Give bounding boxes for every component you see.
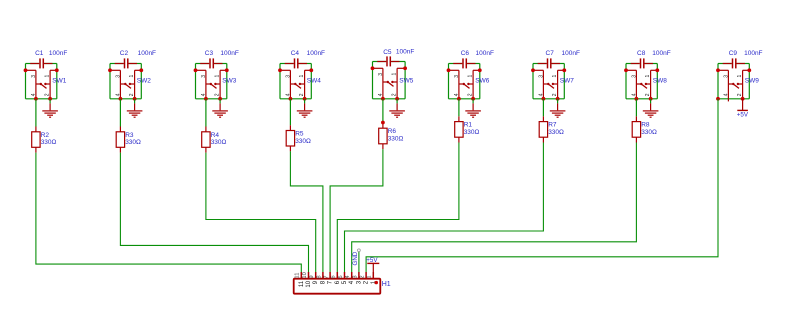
svg-text:10: 10 (302, 272, 308, 278)
svg-text:3: 3 (538, 75, 544, 78)
svg-text:4: 4 (454, 93, 460, 96)
capacitor C6 100nF (453, 50, 494, 68)
resistor R3 330&#937; (116, 127, 141, 153)
capacitor C7 100nF (538, 50, 580, 68)
svg-text:10: 10 (306, 280, 312, 287)
wire: left vertical of SW6 loop (448, 64, 450, 99)
svg-text:C9: C9 (729, 50, 738, 57)
wire: top edge of SW9 loop (interrupted by cap) (718, 63, 732, 65)
svg-text:+5V: +5V (737, 111, 749, 118)
svg-text:C3: C3 (205, 50, 214, 57)
wire: right vertical of SW9 loop (748, 64, 750, 99)
wire: left vertical of SW2 loop (109, 64, 111, 99)
wire: right vertical of SW2 loop (140, 64, 142, 99)
svg-text:3: 3 (285, 75, 291, 78)
svg-text:4: 4 (378, 93, 384, 96)
svg-text:C1: C1 (35, 50, 44, 57)
switch SW9 actuator lever (733, 84, 739, 88)
svg-text:100nF: 100nF (744, 50, 762, 57)
svg-text:C4: C4 (291, 50, 300, 57)
junction at SW9 pin 2 / bottom wire (741, 97, 745, 101)
resistor R6 330&#937; (379, 123, 404, 149)
svg-text:2: 2 (552, 93, 558, 96)
svg-text:4: 4 (723, 93, 729, 96)
wire: bottom edge of SW1 loop (26, 98, 57, 100)
header H1 pin 11 stub (300, 272, 302, 279)
wire from R7 to header pin 5 (345, 143, 544, 273)
junction dot above resistor R6 (381, 121, 385, 125)
junction at SW4 pin 4 / bottom wire (289, 97, 293, 101)
header H1 pin 9 stub (315, 272, 317, 279)
svg-text:SW2: SW2 (137, 78, 151, 85)
capacitor C9 100nF (723, 50, 763, 68)
svg-text:1: 1 (552, 75, 558, 78)
svg-text:1: 1 (391, 73, 397, 76)
svg-text:8: 8 (316, 275, 322, 278)
svg-text:2: 2 (299, 93, 305, 96)
switch SW3 actuator lever (211, 84, 217, 88)
svg-text:3: 3 (378, 73, 384, 76)
svg-text:1: 1 (645, 75, 651, 78)
svg-text:11: 11 (295, 273, 301, 279)
capacitor C5 100nF (377, 49, 414, 67)
junction at SW6 pin 4 / bottom wire (457, 97, 461, 101)
wire from R1 to header pin 6 (337, 143, 459, 273)
junction dots on SW6 loop (447, 68, 451, 72)
wire: top edge of SW1 loop (interrupted by cap) (26, 63, 40, 65)
switch SW8 (pins 3,1 top / 4,2 bottom) (624, 68, 667, 98)
net stub GND at header pin 3 (358, 252, 360, 273)
svg-text:3: 3 (31, 75, 37, 78)
svg-text:330Ω: 330Ω (125, 139, 141, 146)
junction at SW9 pin 4 / bottom wire (716, 97, 720, 101)
junction at SW5 pin 2 / bottom wire (395, 97, 399, 101)
svg-text:330Ω: 330Ω (464, 129, 480, 136)
svg-text:330Ω: 330Ω (641, 129, 657, 136)
junction at SW6 pin 2 / bottom wire (471, 97, 475, 101)
switch SW5 (pins 3,1 top / 4,2 bottom) (371, 66, 414, 98)
svg-text:2: 2 (645, 93, 651, 96)
svg-text:R4: R4 (211, 132, 220, 139)
svg-text:100nF: 100nF (49, 50, 67, 57)
svg-text:3: 3 (723, 75, 729, 78)
svg-text:3: 3 (631, 75, 637, 78)
switch cell SW6 with bypass cap C6 (447, 50, 494, 117)
svg-text:SW7: SW7 (560, 78, 574, 85)
resistor R8 330&#937; (632, 116, 657, 142)
wire: left vertical of SW8 loop (625, 64, 627, 99)
switch cell SW1 with bypass cap C1 (24, 50, 68, 117)
switch cell SW3 with bypass cap C3 (194, 50, 239, 117)
svg-text:C8: C8 (637, 50, 646, 57)
capacitor C1 100nF (30, 50, 67, 68)
svg-text:330Ω: 330Ω (548, 129, 564, 136)
junction dots on SW8 loop (624, 68, 628, 72)
svg-text:11: 11 (299, 280, 305, 287)
switch SW1 actuator lever (41, 84, 47, 88)
wire: top edge of SW2 loop (interrupted by cap) (110, 63, 124, 65)
header H1 pin 4 stub (351, 272, 353, 279)
svg-text:R3: R3 (125, 132, 134, 139)
ground symbol at SW7 pin 2 (550, 99, 566, 117)
switch cell SW8 with bypass cap C8 (624, 50, 671, 117)
svg-text:SW9: SW9 (745, 78, 759, 85)
wire: top edge of SW8 loop (interrupted by cap) (626, 63, 640, 65)
svg-text:9: 9 (309, 275, 315, 278)
svg-text:330Ω: 330Ω (41, 139, 57, 146)
wire: right vertical of SW5 loop (404, 62, 406, 99)
svg-text:SW6: SW6 (475, 78, 489, 85)
wire: left vertical of SW5 loop (372, 62, 374, 99)
svg-text:330Ω: 330Ω (295, 138, 311, 145)
svg-text:2: 2 (360, 275, 366, 278)
SW9 pin 4 stub below bottom wire (727, 99, 729, 102)
svg-text:4: 4 (31, 93, 37, 96)
capacitor C3 100nF (200, 50, 239, 68)
header H1 pin 6 stub (336, 272, 338, 279)
wire from SW1 pin 4 down to R2 (35, 99, 37, 127)
wire: left vertical of SW1 loop (25, 64, 27, 99)
junction dots on SW3 loop (194, 68, 198, 72)
ground symbol at SW3 pin 2 (212, 99, 228, 117)
junction at SW5 pin 4 / bottom wire (381, 97, 385, 101)
wire: bottom edge of SW5 loop (373, 98, 406, 100)
wire: top edge of SW6 loop (interrupted by cap) (449, 63, 463, 65)
switch SW2 actuator lever (125, 84, 131, 88)
wire: right vertical of SW1 loop (56, 64, 58, 99)
svg-text:SW3: SW3 (222, 78, 236, 85)
wire: bottom edge of SW9 loop (718, 98, 749, 100)
svg-text:3: 3 (201, 75, 207, 78)
wire: bottom edge of SW8 loop (626, 98, 657, 100)
svg-text:1: 1 (467, 75, 473, 78)
resistor R7 330&#937; (539, 116, 564, 142)
svg-text:SW5: SW5 (399, 78, 413, 85)
svg-text:R1: R1 (464, 122, 473, 129)
svg-text:GND: GND (352, 251, 359, 265)
junction at SW7 pin 4 / bottom wire (542, 97, 546, 101)
header H1 pin 10 stub (308, 272, 310, 279)
ground symbol at SW4 pin 2 (297, 99, 313, 117)
switch cell SW9 with bypass cap C9 (716, 50, 762, 118)
junction at SW8 pin 2 / bottom wire (649, 97, 653, 101)
junction dots on SW9 loop (716, 68, 720, 72)
wire from SW6 pin 4 down to R1 (458, 99, 460, 117)
svg-text:4: 4 (201, 93, 207, 96)
junction at SW4 pin 2 / bottom wire (303, 97, 307, 101)
svg-text:4: 4 (285, 93, 291, 96)
svg-text:100nF: 100nF (307, 50, 325, 57)
switch SW5 actuator lever (388, 82, 394, 86)
wire: top edge of SW3 loop (interrupted by cap) (196, 63, 210, 65)
svg-text:2: 2 (44, 93, 50, 96)
wire from SW4 pin 4 down to R5 (289, 99, 291, 125)
svg-text:1: 1 (44, 75, 50, 78)
svg-text:3: 3 (115, 75, 121, 78)
header H1 pin 2 stub (365, 272, 367, 279)
switch SW7 (pins 3,1 top / 4,2 bottom) (531, 68, 574, 98)
svg-text:R2: R2 (41, 132, 50, 139)
svg-text:100nF: 100nF (652, 50, 670, 57)
svg-text:C5: C5 (383, 49, 392, 56)
switch cell SW5 with bypass cap C5 (371, 49, 415, 118)
wire: right vertical of SW6 loop (479, 64, 481, 99)
switch SW8 actuator lever (641, 84, 647, 88)
ground symbol at SW5 pin 2 (389, 99, 405, 117)
header H1 pin 3 stub (358, 272, 360, 279)
svg-text:4: 4 (115, 93, 121, 96)
junction dots on SW4 loop (278, 68, 282, 72)
svg-text:H1: H1 (382, 281, 391, 288)
svg-text:3: 3 (454, 75, 460, 78)
wire: bottom edge of SW6 loop (449, 98, 480, 100)
svg-text:C2: C2 (120, 50, 129, 57)
svg-text:2: 2 (391, 93, 397, 96)
wire from SW7 pin 4 down to R7 (542, 99, 544, 117)
svg-text:2: 2 (737, 93, 743, 96)
junction dots on SW1 loop (24, 68, 28, 72)
junction dots on SW5 loop (371, 66, 375, 70)
wire from R4 to header pin 9 (206, 153, 316, 272)
wire from R6 to header pin 7 (330, 149, 383, 272)
resistor R1 330&#937; (455, 116, 480, 142)
header H1 pin 8 stub (322, 272, 324, 279)
svg-text:1: 1 (129, 75, 135, 78)
switch SW4 actuator lever (295, 84, 301, 88)
ground symbol at SW2 pin 2 (127, 99, 143, 117)
wire from SW3 pin 4 down to R4 (205, 99, 207, 127)
resistor R4 330&#937; (202, 127, 227, 153)
svg-text:SW4: SW4 (307, 78, 321, 85)
svg-text:1: 1 (737, 75, 743, 78)
junction at SW1 pin 2 / bottom wire (48, 97, 52, 101)
junction at SW2 pin 2 / bottom wire (133, 97, 137, 101)
wire: left vertical of SW4 loop (279, 64, 281, 99)
capacitor C2 100nF (115, 50, 156, 68)
svg-text:R8: R8 (641, 122, 650, 129)
svg-text:6: 6 (331, 275, 337, 278)
wire from R5 to header pin 8 (290, 151, 323, 272)
junction dots on SW7 loop (531, 68, 535, 72)
svg-text:330Ω: 330Ω (388, 136, 404, 143)
wire: left vertical of SW3 loop (195, 64, 197, 99)
switch SW4 (pins 3,1 top / 4,2 bottom) (278, 68, 321, 98)
svg-text:SW1: SW1 (52, 78, 66, 85)
svg-text:R6: R6 (388, 128, 397, 135)
pin header H1 (294, 272, 391, 294)
svg-text:1: 1 (214, 75, 220, 78)
open net end marker (358, 249, 361, 252)
wire from SW8 pin 4 down to R8 (635, 99, 637, 117)
svg-text:3: 3 (352, 275, 358, 278)
wire: left vertical of SW9 loop (717, 64, 719, 99)
header H1 pin 1 stub (372, 272, 374, 279)
wire: right vertical of SW4 loop (310, 64, 312, 99)
svg-text:100nF: 100nF (220, 50, 238, 57)
wire: right vertical of SW7 loop (563, 64, 565, 99)
svg-text:2: 2 (214, 93, 220, 96)
wire from R8 to header pin 4 (352, 143, 637, 273)
wire: bottom edge of SW3 loop (196, 98, 227, 100)
ground symbol at SW1 pin 2 (42, 99, 58, 117)
svg-text:4: 4 (538, 93, 544, 96)
svg-text:2: 2 (467, 93, 473, 96)
svg-text:100nF: 100nF (562, 50, 580, 57)
svg-text:100nF: 100nF (396, 49, 414, 56)
wire: bottom edge of SW2 loop (110, 98, 141, 100)
header H1 pin 1 marker dot (375, 281, 378, 284)
switch SW6 (pins 3,1 top / 4,2 bottom) (447, 68, 490, 98)
capacitor C8 100nF (631, 50, 671, 68)
junction at SW8 pin 4 / bottom wire (635, 97, 639, 101)
svg-text:1: 1 (299, 75, 305, 78)
wire: right vertical of SW3 loop (226, 64, 228, 99)
wire: top edge of SW5 loop (interrupted by cap) (373, 61, 387, 63)
junction dots on SW2 loop (108, 68, 112, 72)
wire from R3 to header pin 10 (120, 153, 308, 272)
svg-text:1: 1 (367, 275, 373, 278)
svg-text:R5: R5 (295, 131, 304, 138)
ground symbol at SW8 pin 2 (643, 99, 659, 117)
capacitor C4 100nF (285, 50, 325, 68)
resistor R2 330&#937; (32, 127, 57, 153)
svg-text:C7: C7 (546, 50, 555, 57)
svg-text:+5V: +5V (366, 257, 378, 264)
wire from SW9 to header pin 2 (366, 99, 718, 272)
svg-text:7: 7 (324, 275, 330, 278)
wire from SW2 pin 4 down to R3 (119, 99, 121, 127)
switch cell SW4 with bypass cap C4 (278, 50, 325, 117)
header H1 pin 7 stub (329, 272, 331, 279)
junction at SW2 pin 4 / bottom wire (119, 97, 123, 101)
wire from R2 to header pin 11 (36, 153, 301, 272)
switch SW3 (pins 3,1 top / 4,2 bottom) (194, 68, 237, 98)
svg-text:100nF: 100nF (138, 50, 156, 57)
switch SW9 (pins 3,1 top / 4,2 bottom) (716, 68, 759, 98)
wire: right vertical of SW8 loop (656, 64, 658, 99)
junction at SW7 pin 2 / bottom wire (556, 97, 560, 101)
resistor R5 330&#937; (286, 125, 311, 151)
header H1 pin 5 stub (344, 272, 346, 279)
svg-text:C6: C6 (461, 50, 470, 57)
+5V supply symbol at header pin 1 (366, 257, 379, 272)
wire from SW5 pin 4 down to R6 (382, 99, 384, 123)
+5V supply symbol at SW9 pin 2 (737, 99, 749, 119)
junction at SW3 pin 2 / bottom wire (218, 97, 222, 101)
switch cell SW7 with bypass cap C7 (531, 50, 580, 117)
svg-text:330Ω: 330Ω (211, 139, 227, 146)
svg-text:4: 4 (631, 93, 637, 96)
wire: top edge of SW7 loop (interrupted by cap) (533, 63, 547, 65)
switch SW7 actuator lever (548, 84, 554, 88)
svg-text:2: 2 (129, 93, 135, 96)
svg-text:R7: R7 (548, 122, 557, 129)
switch SW1 (pins 3,1 top / 4,2 bottom) (24, 68, 67, 98)
wire: bottom edge of SW4 loop (280, 98, 311, 100)
svg-text:SW8: SW8 (653, 78, 667, 85)
svg-text:100nF: 100nF (476, 50, 494, 57)
svg-text:5: 5 (338, 275, 344, 278)
wire: top edge of SW4 loop (interrupted by cap) (280, 63, 294, 65)
wire: bottom edge of SW7 loop (533, 98, 564, 100)
switch cell SW2 with bypass cap C2 (108, 50, 156, 117)
wire: left vertical of SW7 loop (532, 64, 534, 99)
junction at SW1 pin 4 / bottom wire (34, 97, 38, 101)
junction at SW3 pin 4 / bottom wire (204, 97, 208, 101)
ground symbol at SW6 pin 2 (465, 99, 481, 117)
switch SW2 (pins 3,1 top / 4,2 bottom) (108, 68, 151, 98)
switch SW6 actuator lever (464, 84, 470, 88)
